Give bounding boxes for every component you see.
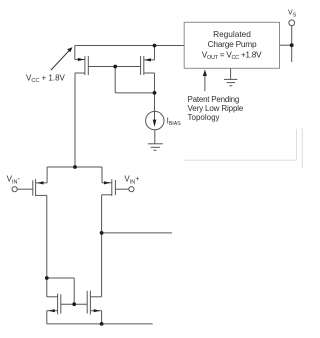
svg-text:Charge Pump: Charge Pump <box>208 39 257 49</box>
svg-text:Very Low Ripple: Very Low Ripple <box>188 104 244 113</box>
svg-text:IBIAS: IBIAS <box>167 116 182 127</box>
svg-text:VS: VS <box>288 10 297 19</box>
svg-text:VIN-: VIN- <box>7 174 21 186</box>
svg-text:Patent Pending: Patent Pending <box>188 95 240 104</box>
svg-text:VIN+: VIN+ <box>124 175 139 186</box>
svg-text:Regulated: Regulated <box>213 29 251 39</box>
svg-text:VOUT = VCC +1.8V: VOUT = VCC +1.8V <box>202 49 262 61</box>
svg-text:Topology: Topology <box>188 113 220 122</box>
svg-text:VCC + 1.8V: VCC + 1.8V <box>26 74 66 85</box>
